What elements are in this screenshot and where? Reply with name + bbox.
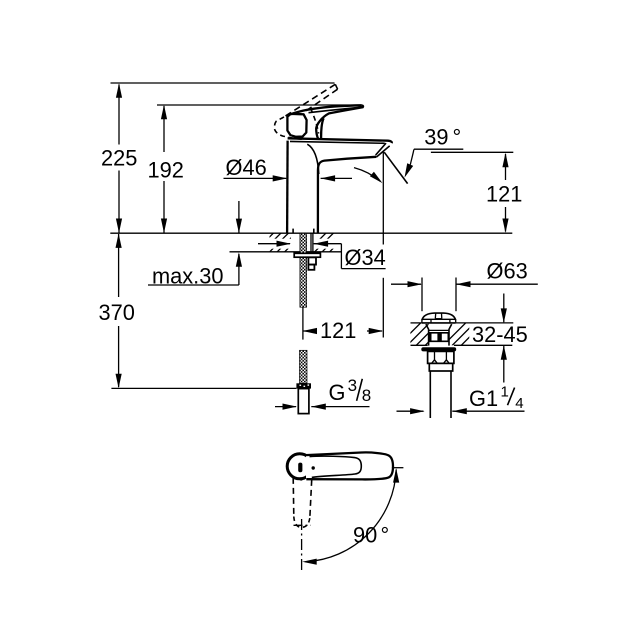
faucet body inner transition curve bbox=[307, 144, 319, 174]
svg-text:225: 225 bbox=[101, 146, 137, 171]
dimension 90 degrees bbox=[302, 468, 403, 565]
wire: hose-end reference line (370 bottom) bbox=[111, 387, 296, 389]
dimension D63 bbox=[391, 259, 538, 312]
svg-text:121: 121 bbox=[486, 182, 522, 207]
dimension 370 bbox=[99, 233, 135, 388]
svg-text:max.30: max.30 bbox=[152, 264, 223, 289]
plan view: pivot knob circle bbox=[287, 454, 312, 479]
flexible hose lower part (stippled) bbox=[300, 350, 308, 383]
label G 3/8 bbox=[275, 376, 371, 410]
dome flange bbox=[422, 318, 456, 320]
dimension 121 bottom bbox=[303, 307, 384, 343]
svg-text:°: ° bbox=[453, 124, 462, 149]
svg-text:Ø46: Ø46 bbox=[226, 155, 267, 180]
dimension D34 label bbox=[270, 239, 292, 249]
dimension 32-45 bbox=[472, 294, 528, 383]
wire: 39-degree flow line bbox=[384, 152, 407, 183]
faucet spout top surface bbox=[288, 138, 392, 143]
faucet base ticks bbox=[292, 229, 294, 233]
dimension D46 label bbox=[224, 155, 353, 181]
threaded shank (stippled) bbox=[300, 233, 307, 307]
lever handle underside and neck bbox=[316, 105, 363, 139]
drain deck hatching right bbox=[443, 323, 484, 346]
plan view: indicator bar and dots bbox=[298, 463, 302, 473]
faucet aerator end face bbox=[376, 144, 386, 155]
deck hatching left of faucet bbox=[254, 233, 304, 253]
svg-text:3: 3 bbox=[348, 376, 357, 395]
wire: spout outlet horizontal reference bbox=[431, 151, 513, 153]
plan view: inner lever contour bbox=[310, 456, 362, 477]
wire: extension line raised-lever height (225 ref) bbox=[111, 82, 335, 84]
dimension 121 right bbox=[486, 153, 522, 233]
svg-text:Ø34: Ø34 bbox=[345, 245, 386, 270]
svg-text:192: 192 bbox=[148, 158, 184, 183]
hose crimp collar bbox=[296, 383, 311, 388]
lever handle top edge bbox=[291, 105, 362, 114]
lever handle knob bbox=[287, 114, 306, 137]
dimension max.30 bbox=[148, 201, 242, 289]
svg-text:1: 1 bbox=[501, 384, 509, 401]
wire: counter deck top line bbox=[110, 232, 512, 234]
drain deck band lines bbox=[411, 322, 422, 324]
pop-up waste dome cap bbox=[422, 313, 456, 320]
plan view: handle body bbox=[306, 452, 393, 479]
svg-text:G1: G1 bbox=[469, 386, 498, 411]
drain deck hatching left bbox=[398, 323, 448, 346]
drain body in deck bbox=[426, 324, 429, 346]
svg-text:Ø63: Ø63 bbox=[487, 259, 528, 284]
wire: extension line lever tip height (192 ref) bbox=[157, 104, 361, 106]
plan view: handle rotated down (dashed) bbox=[293, 478, 312, 527]
mounting washer bbox=[294, 253, 320, 257]
drain washer below deck bbox=[421, 347, 456, 351]
svg-text:°: ° bbox=[381, 523, 390, 548]
svg-text:90: 90 bbox=[353, 523, 377, 548]
label G1 1/4 bbox=[397, 384, 525, 415]
svg-text:121: 121 bbox=[320, 318, 356, 343]
dome knob ticks bbox=[434, 314, 436, 319]
lever raised position (dashed) bbox=[274, 84, 337, 139]
svg-text:39: 39 bbox=[424, 124, 448, 149]
plan view: centerlines bbox=[301, 519, 303, 571]
hose G3/8 thread end bbox=[298, 389, 309, 414]
dimension 225 bbox=[101, 83, 137, 233]
svg-text:32-45: 32-45 bbox=[472, 322, 528, 347]
svg-text:G: G bbox=[329, 380, 346, 405]
wire: angle arc with arrow (left) bbox=[354, 168, 383, 184]
dimension 39 degrees bbox=[405, 124, 464, 177]
wire: spout tip vertical extension bbox=[382, 152, 384, 245]
deck hatching right of faucet bbox=[307, 233, 349, 253]
dimension 192 bbox=[148, 105, 184, 233]
mounting nut blocks bbox=[308, 257, 316, 264]
svg-text:4: 4 bbox=[515, 395, 523, 412]
pop-up rod bbox=[310, 233, 312, 253]
drain locking nut bbox=[428, 351, 454, 363]
svg-text:8: 8 bbox=[362, 386, 371, 405]
wire: counter deck bottom line bbox=[230, 251, 342, 253]
faucet body left edge bbox=[286, 141, 289, 233]
faucet spout underside and right edge bbox=[318, 157, 376, 233]
svg-text:370: 370 bbox=[99, 300, 135, 325]
drain tail pipe bbox=[429, 371, 431, 418]
